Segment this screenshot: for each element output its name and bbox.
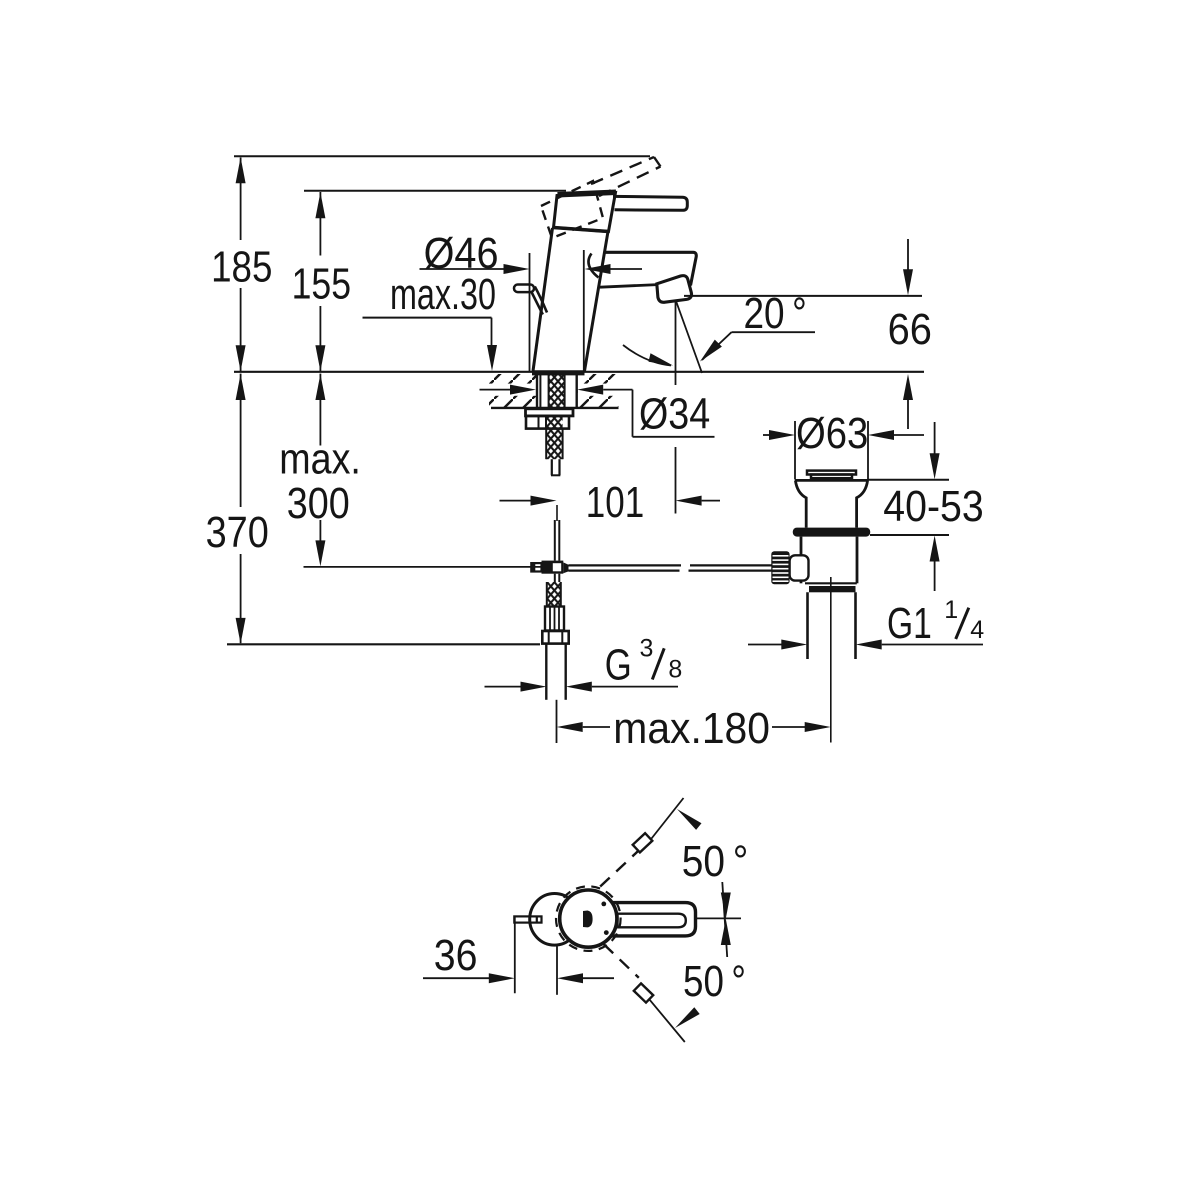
- svg-text:1: 1: [944, 596, 958, 624]
- svg-text:G: G: [605, 641, 632, 690]
- bottom view: spout outline: [612, 903, 696, 936]
- braided hose below nut: [546, 416, 562, 459]
- bottom view: upper lever extension: [652, 798, 684, 839]
- dimension 40-53: [883, 422, 983, 591]
- dashed lever upper line: [591, 157, 654, 184]
- dimension 101: [500, 478, 721, 527]
- svg-text:101: 101: [586, 478, 644, 527]
- dimension 36: [423, 917, 614, 995]
- solid lever horizontal: [613, 196, 687, 210]
- svg-text:20 °: 20 °: [744, 289, 807, 338]
- tee junction block: [542, 561, 564, 574]
- washer under counter: [526, 409, 574, 416]
- hose tube stub: [551, 459, 553, 475]
- rod left fitting at tee: [531, 563, 541, 571]
- svg-text:155: 155: [292, 260, 351, 309]
- horizontal pull rod (right piece after break): [690, 564, 774, 566]
- drain knob connector: [790, 555, 809, 580]
- aerator outlet: [657, 276, 692, 303]
- faucet base bottom thick edge: [532, 370, 585, 375]
- horizontal pull rod to drain (left piece): [569, 564, 682, 566]
- drain knurled knob: [771, 551, 789, 584]
- bottom view: cartridge slot: [583, 911, 593, 928]
- drain upper datum line: [868, 479, 949, 481]
- braided hose below tee: [547, 582, 561, 607]
- dimension 66: [888, 239, 932, 429]
- bottom view: pin: [514, 916, 541, 922]
- drain black band: [809, 586, 856, 592]
- svg-text:50 °: 50 °: [683, 957, 746, 1006]
- bottom view: lower 50 arrow: [675, 1007, 700, 1028]
- drain center line: [830, 577, 832, 743]
- dimension G1 1/4: [748, 596, 984, 649]
- dimension max.300: [279, 374, 361, 567]
- bottom view: spout slot: [618, 914, 686, 928]
- braided hose in hole: [549, 375, 565, 409]
- dimension diameter 34 with leader: [480, 385, 715, 439]
- dimension max.180: [557, 704, 831, 753]
- aerator vertical reference line: [675, 301, 677, 385]
- drain body walls: [800, 537, 803, 584]
- pull-rod knob capsule: [514, 285, 534, 293]
- svg-text:3: 3: [640, 635, 654, 663]
- bottom view: dashed swivel circle: [556, 886, 621, 951]
- faucet body right edge: [585, 232, 609, 372]
- bottom view: head circle: [560, 890, 617, 947]
- spout top and right edge: [604, 252, 697, 285]
- bottom datum line left (370 lower): [227, 643, 540, 645]
- dimension 370: [206, 374, 269, 644]
- svg-text:40-53: 40-53: [883, 482, 983, 531]
- hole left edge in counter: [536, 374, 538, 409]
- svg-text:Ø63: Ø63: [796, 409, 868, 458]
- handle base bottom joint line: [554, 228, 609, 232]
- bottom view: upper lever dashed: [600, 839, 651, 887]
- fixing nut: [526, 416, 569, 429]
- svg-text:185: 185: [211, 242, 272, 291]
- pull-rod center line above tee: [556, 505, 558, 521]
- dimension max.30: [363, 270, 498, 371]
- drain plug cap: [807, 471, 856, 475]
- swing arc under spout: [623, 345, 671, 366]
- body-spout fillet arc: [588, 254, 598, 278]
- hole right edge in counter: [576, 374, 578, 409]
- svg-text:max.30: max.30: [390, 270, 496, 319]
- counter slab hatching right: [578, 374, 619, 408]
- bottom view: upper 50 arrow: [677, 809, 702, 830]
- spout underside: [600, 285, 658, 288]
- bottom view: upper lever collar: [633, 833, 653, 852]
- G3/8 union nut: [542, 631, 568, 644]
- faucet body left edge: [533, 228, 553, 371]
- svg-text:max.180: max.180: [613, 704, 770, 753]
- pull-rod knob stem: [532, 287, 548, 315]
- spout outlet reference line: [684, 295, 922, 297]
- dimension 155: [292, 192, 351, 371]
- basin/counter top reference line: [234, 371, 924, 373]
- reference line top (185 upper datum): [234, 155, 650, 157]
- drain body bottom ring: [805, 582, 857, 584]
- drain tailpiece walls: [806, 592, 809, 659]
- bottom view: lower lever dashed: [604, 944, 639, 978]
- pull-rod reference line thin left: [304, 566, 542, 568]
- svg-text:66: 66: [888, 305, 932, 354]
- bottom view: body base oval: [530, 894, 580, 946]
- hose ferrule: [545, 607, 564, 631]
- dimension diameter 63: [763, 409, 924, 458]
- drain flange extension lines: [794, 421, 796, 480]
- svg-text:max.: max.: [279, 435, 361, 484]
- bottom view: lower lever extension: [650, 1000, 685, 1042]
- svg-text:50 °: 50 °: [682, 837, 749, 886]
- svg-text:300: 300: [287, 479, 350, 528]
- svg-text:Ø34: Ø34: [639, 390, 710, 439]
- bottom view: lower lever collar: [634, 983, 653, 1002]
- svg-text:36: 36: [434, 931, 478, 980]
- svg-text:8: 8: [668, 656, 682, 684]
- drain rubber seal: [793, 528, 870, 537]
- svg-text:G1: G1: [887, 599, 932, 648]
- counter slab hatching left: [489, 374, 536, 408]
- dashed lever tip cap: [654, 157, 661, 167]
- handle base top thick bar: [558, 192, 617, 195]
- reference line 155 upper datum: [304, 190, 566, 192]
- drain seal datum line: [870, 534, 949, 536]
- dimension G 3/8: [485, 635, 683, 692]
- dimension diameter 46: [420, 229, 643, 371]
- handle base quad solid: [554, 193, 616, 232]
- connection tube below nut: [545, 644, 547, 700]
- counter slab bottom edge: [491, 407, 619, 409]
- bottom view: index dots: [601, 902, 606, 907]
- shank inner line: [539, 375, 541, 408]
- pull-rod double line above tee: [554, 520, 556, 561]
- bottom view: center line right: [696, 917, 742, 919]
- dimension 20 degrees: [700, 289, 815, 361]
- dashed lever lower line: [599, 167, 661, 197]
- rod double line below tee: [554, 574, 556, 582]
- hatch mask around dimension line: [480, 384, 536, 396]
- bottom view: angle arrows at center line: [721, 893, 731, 919]
- tube center extension line: [556, 700, 558, 743]
- svg-text:370: 370: [206, 508, 269, 557]
- water stream 20 degree line: [676, 301, 702, 373]
- dashed handle base quad (open position): [541, 181, 603, 238]
- bottom view: angle chord line: [722, 882, 727, 957]
- drain flange: [795, 479, 868, 482]
- svg-text:4: 4: [970, 616, 984, 644]
- dimension 185: [211, 157, 272, 371]
